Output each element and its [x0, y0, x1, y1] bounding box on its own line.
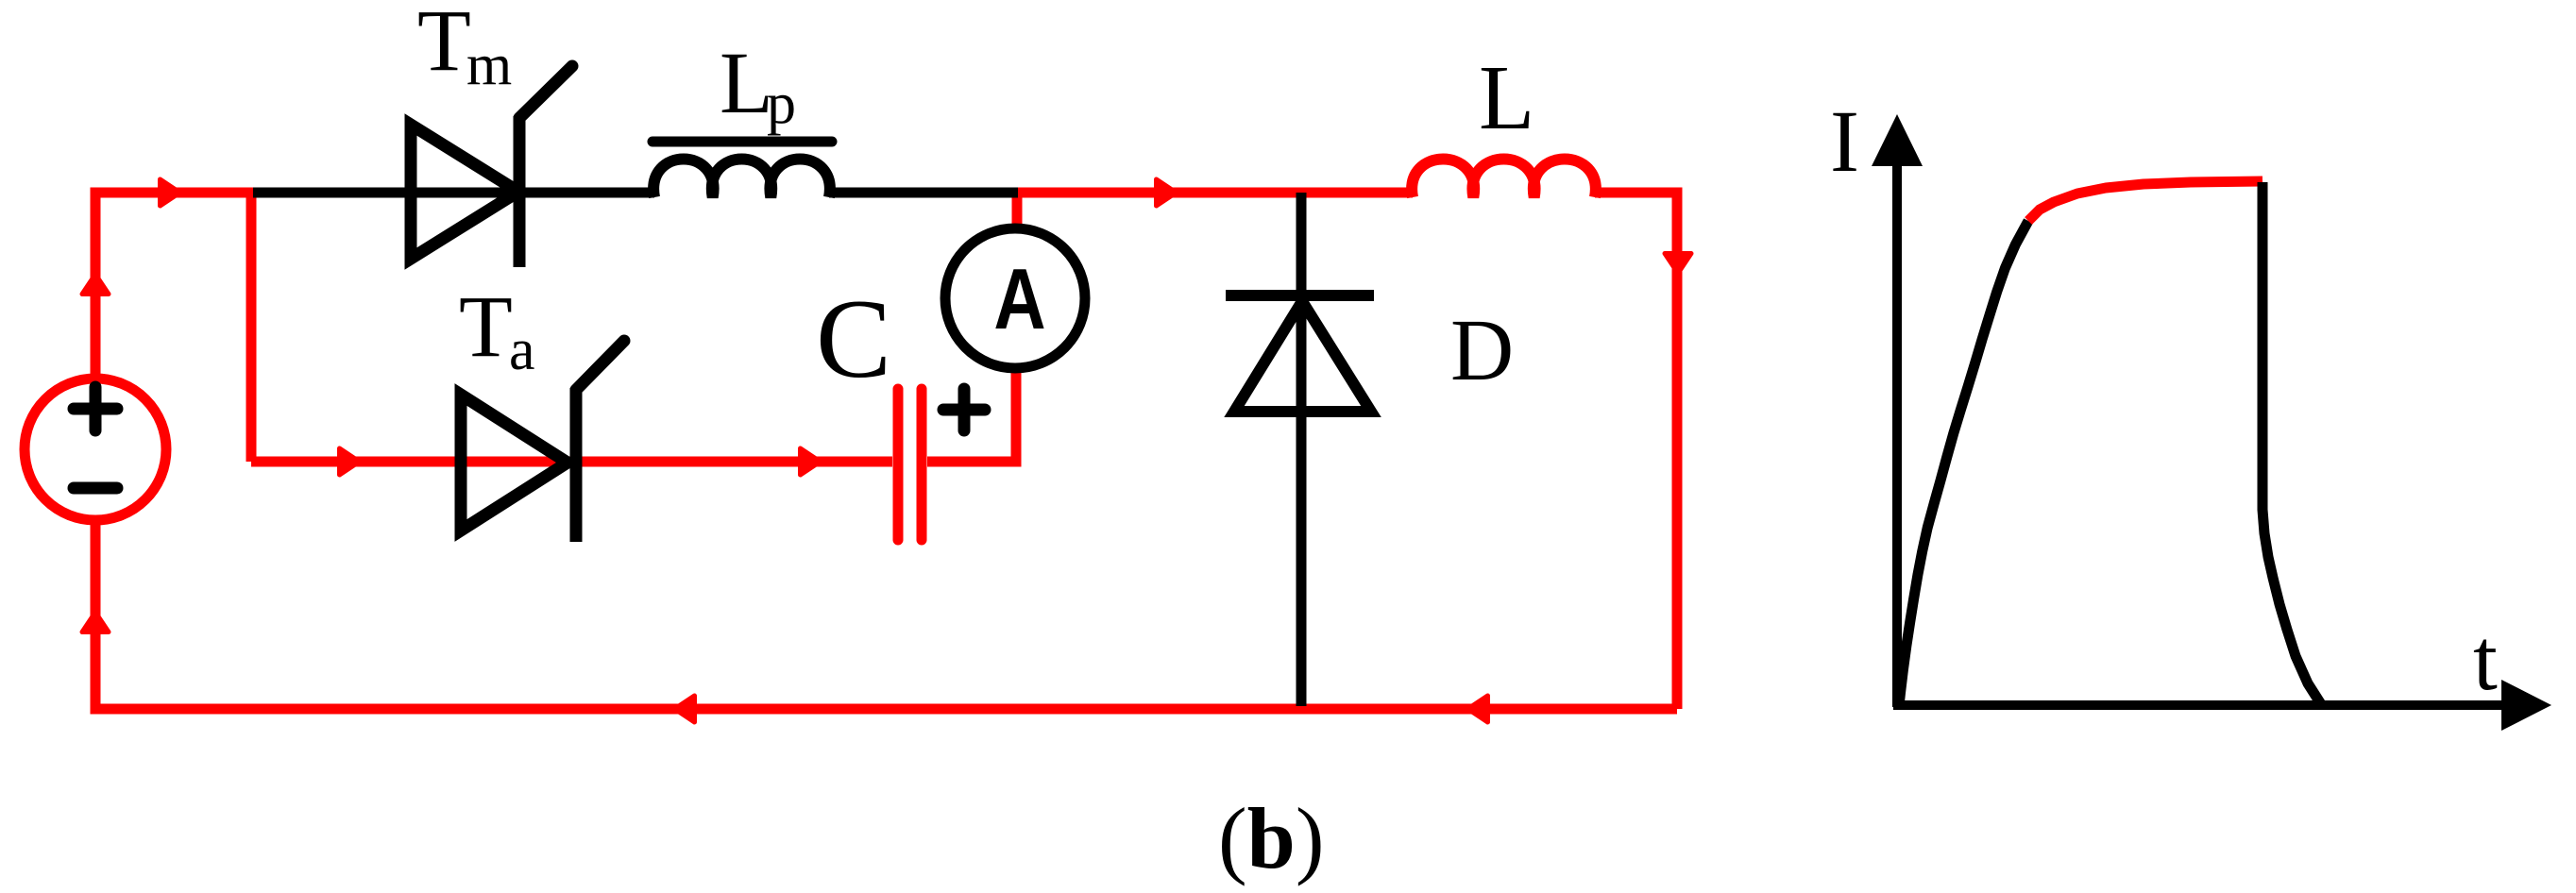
wire junction vertical to Ta branch [246, 188, 257, 462]
arrow up on left wire below source [82, 613, 109, 632]
svg-text:A: A [993, 251, 1045, 347]
svg-text:D: D [1450, 302, 1514, 399]
graph curve rising (black) [1899, 221, 2028, 706]
svg-text:(b): (b) [1218, 790, 1324, 886]
svg-text:L: L [1479, 47, 1534, 148]
arrow down on right wire [1665, 254, 1691, 274]
wire Ta branch horizontal [251, 457, 892, 467]
arrow right on top wire before diode [1157, 179, 1177, 206]
svg-text:T: T [417, 0, 471, 90]
graph curve flat top (red) [2028, 181, 2262, 221]
graph I axis (vertical) [1892, 162, 1902, 707]
thyristor Tm [411, 66, 572, 267]
arrow right on Ta branch wire [801, 448, 821, 475]
svg-text:L: L [720, 35, 773, 132]
arrow left on bottom wire (first) [675, 696, 695, 722]
arrow right on top-left wire [161, 179, 180, 206]
thyristor Ta [461, 341, 624, 542]
wire ammeter top stub [1012, 188, 1023, 227]
svg-text:t: t [2473, 612, 2498, 709]
ammeter A [945, 228, 1085, 368]
svg-text:a: a [509, 318, 535, 382]
voltage source V [25, 379, 166, 520]
svg-text:C: C [816, 276, 891, 401]
svg-text:p: p [767, 72, 796, 136]
wire capacitor to ammeter [927, 370, 1016, 462]
wire after inductor L to top-right corner, down right side [1595, 193, 1677, 709]
wire top black section left [253, 188, 654, 198]
inductor L [1412, 160, 1596, 198]
graph t axis (horizontal) [1893, 700, 2507, 710]
diode D [1226, 193, 1374, 706]
wire top black section right [829, 188, 1018, 198]
wire left vertical bottom (source to bottom-left corner) [95, 520, 1677, 709]
graph curve falling (black) [2262, 182, 2321, 704]
arrow left on bottom wire (second) [1468, 696, 1488, 722]
svg-text:I: I [1830, 93, 1859, 191]
svg-text:m: m [466, 33, 512, 97]
capacitor plus polarity [943, 389, 985, 430]
inductor Lp [652, 142, 832, 197]
wire top red right section [1014, 188, 1413, 198]
wire left vertical top (source to top-left corner) [95, 193, 257, 379]
svg-text:T: T [459, 278, 513, 376]
capacitor C [898, 389, 922, 540]
arrow right on Ta branch wire (near junction) [340, 448, 360, 475]
arrow up on left wire above source [82, 275, 109, 295]
